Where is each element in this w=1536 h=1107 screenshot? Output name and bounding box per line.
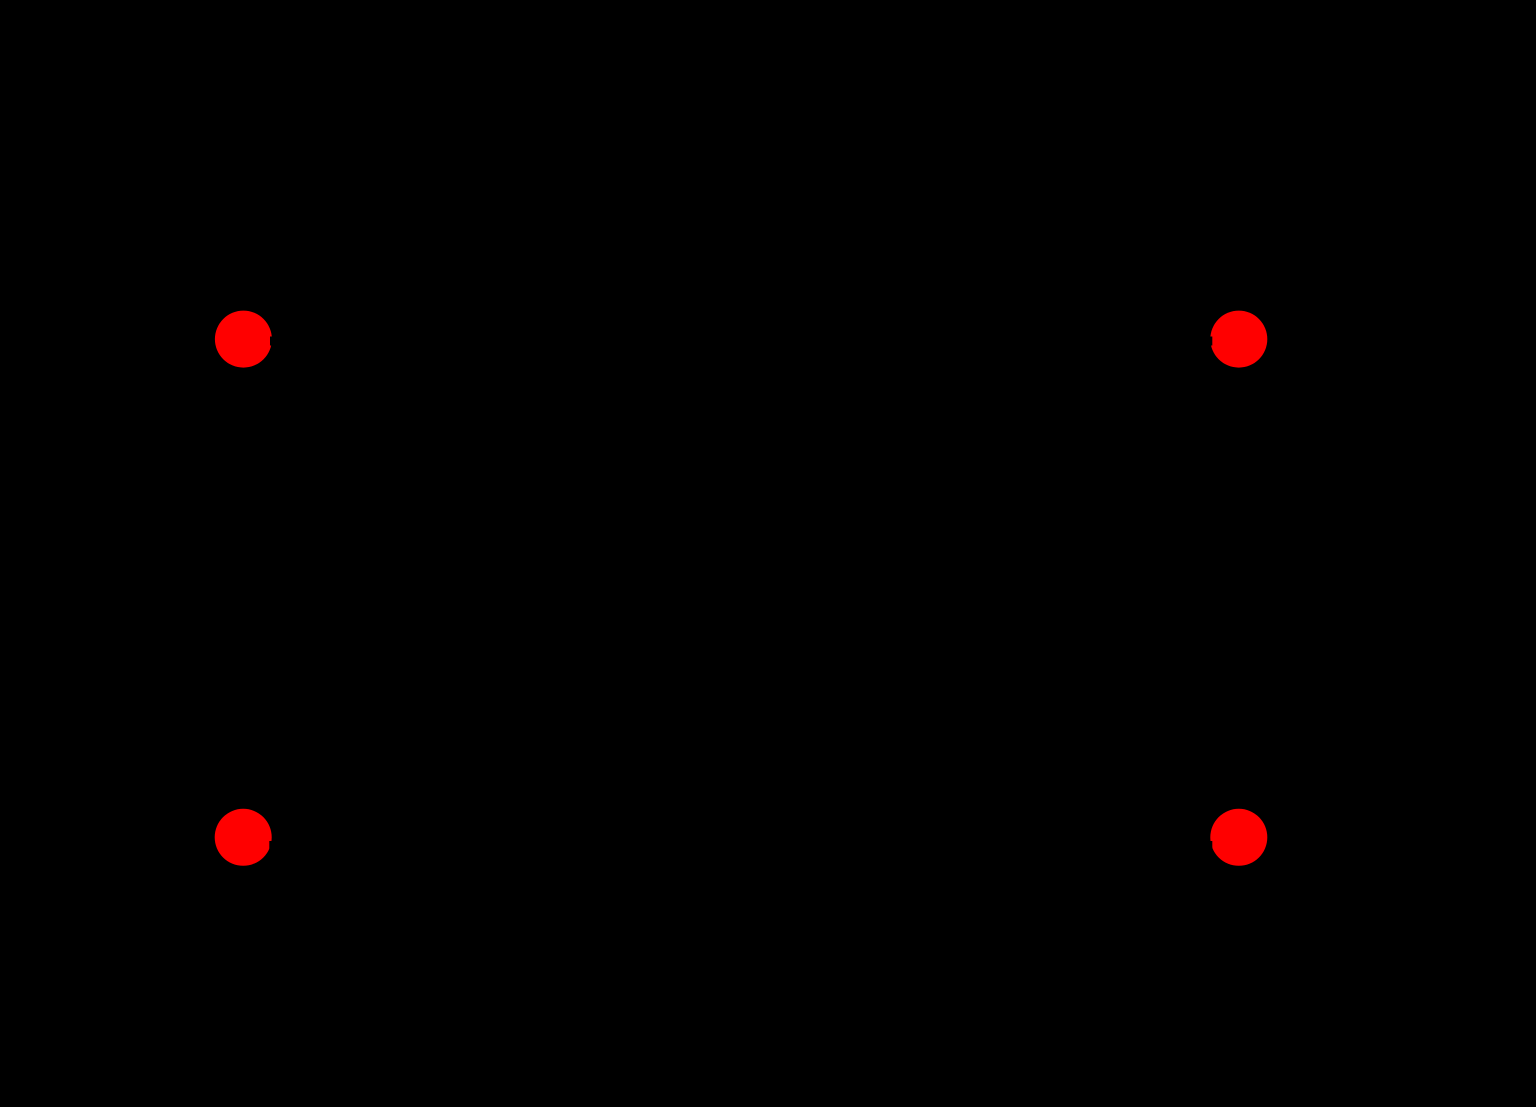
two-port network box U1 bbox=[515, 232, 967, 954]
current arrow I2 (into port 2) bbox=[1054, 282, 1162, 310]
wire: port 2 upper lead bbox=[967, 337, 1212, 346]
svg-text:+: + bbox=[1300, 388, 1328, 441]
terminal node port2+ (red dot, top-right) bbox=[1210, 311, 1267, 368]
wire: port 2 lower lead bbox=[967, 841, 1212, 850]
terminal node port1+ (red dot, top-left) bbox=[215, 311, 272, 368]
svg-text:Two-port: Two-port bbox=[659, 570, 823, 617]
svg-text:−: − bbox=[164, 748, 192, 801]
wire: port 1 upper lead bbox=[270, 337, 515, 346]
svg-text:+: + bbox=[160, 388, 188, 441]
terminal node port2- (red dot, bottom-right) bbox=[1210, 809, 1267, 866]
svg-text:−: − bbox=[1304, 748, 1332, 801]
current arrow I1 (into port 1) bbox=[320, 282, 428, 310]
wire: port 1 lower lead bbox=[269, 841, 515, 850]
terminal node port1- (red dot, bottom-left) bbox=[215, 809, 272, 866]
